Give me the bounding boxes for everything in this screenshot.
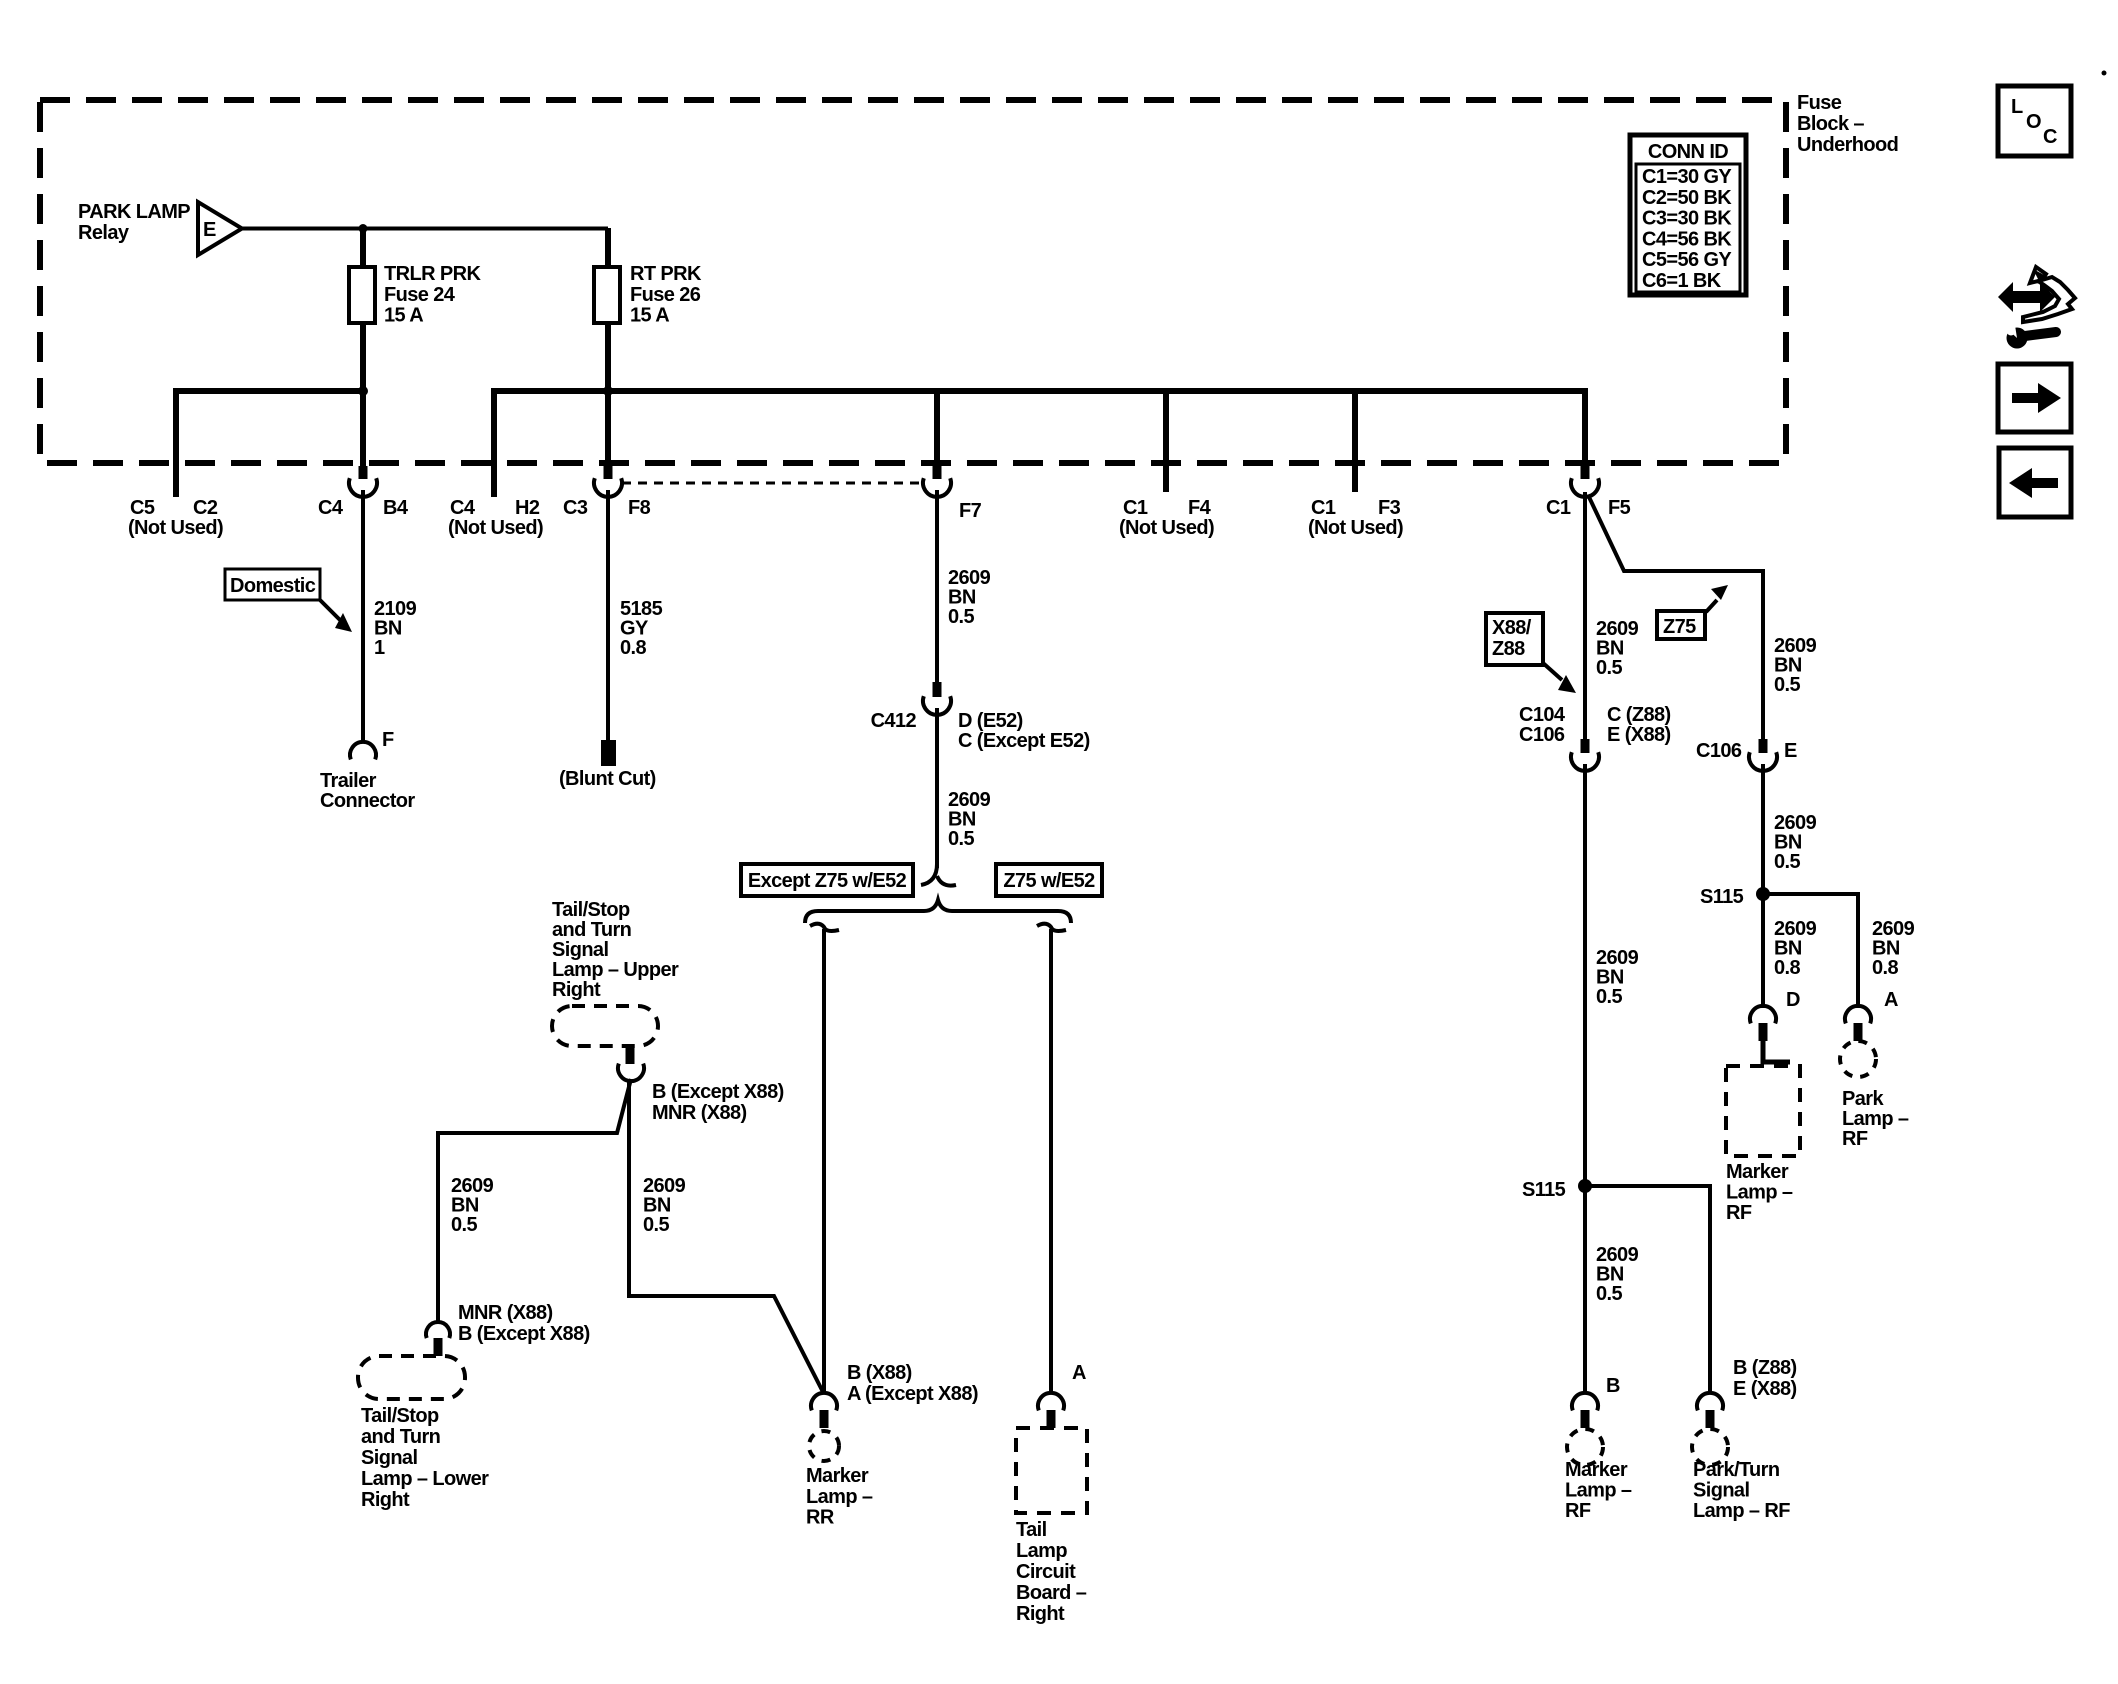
svg-text:C3=30 BK: C3=30 BK (1642, 208, 1732, 230)
svg-text:C412: C412 (871, 710, 917, 732)
svg-text:0.8: 0.8 (1872, 957, 1898, 979)
svg-text:Underhood: Underhood (1797, 134, 1898, 156)
splice S115 dot 2 (1578, 1179, 1592, 1193)
svg-text:0.5: 0.5 (948, 828, 974, 850)
connector C412 (933, 682, 942, 697)
dashed link F8 to F7 (622, 482, 923, 485)
connector park/turn RF (1697, 1393, 1723, 1410)
svg-text:and Turn: and Turn (552, 919, 631, 941)
arrow outline icon (2023, 267, 2075, 322)
svg-text:Signal: Signal (1693, 1480, 1749, 1502)
next arrow icon (1998, 364, 2071, 432)
svg-text:C: C (2043, 126, 2057, 148)
svg-text:L: L (2011, 96, 2023, 118)
park lamp RF bulb (1840, 1041, 1876, 1077)
svg-text:Except Z75 w/E52: Except Z75 w/E52 (748, 870, 907, 892)
connector B marker RF (1572, 1393, 1598, 1410)
svg-text:Lamp: Lamp (1016, 1540, 1067, 1562)
svg-text:1: 1 (374, 637, 385, 659)
connector marker RR (811, 1393, 837, 1410)
connector D (1750, 1006, 1776, 1023)
wire 2609 below C104 (1583, 764, 1587, 1186)
svg-text:C5: C5 (130, 497, 155, 519)
svg-text:X88/: X88/ (1492, 617, 1532, 639)
wire upper lamp to marker RR (629, 1079, 824, 1394)
wire RT fuse top (605, 228, 611, 267)
option box Except Z75 w/E52 (741, 864, 913, 896)
svg-text:0.5: 0.5 (1774, 674, 1800, 696)
CONN ID table (1630, 135, 1746, 295)
svg-text:(Not Used): (Not Used) (1308, 517, 1403, 539)
svg-text:0.5: 0.5 (1596, 986, 1622, 1008)
wire to MNR lower lamp (438, 1079, 631, 1322)
wire S115-2 to marker RF (1583, 1186, 1587, 1394)
wire TRLR fuse bottom (360, 323, 366, 466)
svg-text:Domestic: Domestic (230, 575, 316, 597)
domestic arrow (320, 600, 342, 622)
svg-text:PARK LAMP: PARK LAMP (78, 201, 190, 223)
wire hook right (1037, 924, 1066, 931)
svg-text:(Not Used): (Not Used) (448, 517, 543, 539)
wire hook left (810, 924, 839, 931)
fuse 26 RT PRK (594, 267, 620, 323)
svg-text:E (X88): E (X88) (1733, 1378, 1797, 1400)
wire S115 to D (1761, 894, 1765, 1008)
svg-text:0.8: 0.8 (1774, 957, 1800, 979)
svg-text:C106: C106 (1696, 740, 1742, 762)
back arrow icon (1999, 448, 2071, 517)
artifact dot (2102, 71, 2107, 76)
wire TRLR fuse top (360, 228, 366, 267)
wire 2609 BN below C412 (935, 708, 939, 868)
stub C1 F3 (1352, 391, 1358, 492)
svg-text:S115: S115 (1700, 886, 1744, 908)
left bus wire (176, 391, 363, 497)
svg-text:0.5: 0.5 (948, 606, 974, 628)
svg-text:S115: S115 (1522, 1179, 1566, 1201)
svg-text:Marker: Marker (1726, 1161, 1789, 1183)
svg-text:RT PRK: RT PRK (630, 263, 702, 285)
junction dot left bus (358, 386, 368, 396)
wire S115-2 to park/turn (1585, 1186, 1710, 1394)
svg-text:Tail/Stop: Tail/Stop (361, 1405, 439, 1427)
connector MNR (426, 1322, 450, 1338)
svg-text:Park: Park (1842, 1088, 1884, 1110)
svg-text:F3: F3 (1378, 497, 1401, 519)
svg-text:Z75 w/E52: Z75 w/E52 (1003, 870, 1095, 892)
svg-text:Lamp –: Lamp – (1565, 1480, 1632, 1502)
wire S115 to A (1763, 894, 1858, 1008)
svg-text:C2=50 BK: C2=50 BK (1642, 187, 1732, 209)
svg-text:C1: C1 (1311, 497, 1336, 519)
tail lamp circuit board box (1016, 1428, 1087, 1513)
svg-text:F8: F8 (628, 497, 651, 519)
svg-text:C4: C4 (318, 497, 344, 519)
Z75 arrow (1706, 600, 1717, 612)
svg-text:B4: B4 (383, 497, 409, 519)
svg-text:Circuit: Circuit (1016, 1561, 1076, 1583)
svg-text:Right: Right (361, 1489, 410, 1511)
Z75 callout box (1657, 611, 1705, 639)
marker lamp RF box (1726, 1066, 1800, 1156)
connector C106 E (1761, 682, 1765, 740)
connector A board (1038, 1393, 1064, 1410)
svg-text:C5=56 GY: C5=56 GY (1642, 249, 1732, 271)
svg-text:Signal: Signal (361, 1447, 417, 1469)
svg-text:RR: RR (806, 1507, 835, 1529)
relay E triangle (198, 202, 242, 255)
svg-text:Lamp –: Lamp – (806, 1486, 873, 1508)
svg-text:Block –: Block – (1797, 113, 1864, 135)
svg-text:C3: C3 (563, 497, 588, 519)
svg-text:RF: RF (1842, 1128, 1868, 1150)
svg-text:Lamp –: Lamp – (1842, 1108, 1909, 1130)
svg-text:Signal: Signal (552, 939, 608, 961)
fuse block - underhood dashed border (40, 100, 1786, 463)
svg-text:(Not Used): (Not Used) (128, 517, 223, 539)
svg-text:C6=1 BK: C6=1 BK (1642, 270, 1722, 292)
junction dot relay/TRLR (359, 224, 368, 233)
svg-text:Right: Right (1016, 1603, 1065, 1625)
svg-text:C106: C106 (1519, 724, 1565, 746)
wire D to marker box (1763, 1041, 1790, 1062)
svg-text:E (X88): E (X88) (1607, 724, 1671, 746)
marker lamp RF bulb 2 (1567, 1429, 1603, 1465)
svg-text:C1: C1 (1123, 497, 1148, 519)
svg-text:D (E52): D (E52) (958, 710, 1023, 732)
wire end hook above brace (921, 864, 937, 885)
double arrow icon (1998, 282, 2055, 312)
svg-text:Relay: Relay (78, 222, 130, 244)
svg-text:Tail: Tail (1016, 1519, 1047, 1541)
svg-text:B (Except X88): B (Except X88) (458, 1323, 590, 1345)
svg-text:Trailer: Trailer (320, 770, 377, 792)
svg-text:C104: C104 (1519, 704, 1566, 726)
svg-text:and Turn: and Turn (361, 1426, 440, 1448)
svg-text:15 A: 15 A (384, 305, 423, 327)
brace (805, 900, 1071, 923)
svg-text:F5: F5 (1608, 497, 1631, 519)
svg-text:Board –: Board – (1016, 1582, 1087, 1604)
wire brace right vertical (1049, 929, 1053, 1394)
wire brace left vertical (822, 929, 826, 1394)
svg-text:(Blunt Cut): (Blunt Cut) (559, 768, 656, 790)
connector B4 (359, 466, 368, 479)
connector F5 (1581, 466, 1590, 479)
svg-text:O: O (2026, 111, 2041, 133)
fuse 24 TRLR PRK (349, 267, 375, 323)
svg-text:B (X88): B (X88) (847, 1362, 912, 1384)
svg-text:CONN ID: CONN ID (1648, 141, 1728, 163)
svg-text:0.5: 0.5 (643, 1214, 669, 1236)
svg-text:Fuse 24: Fuse 24 (384, 284, 456, 306)
svg-text:Connector: Connector (320, 790, 415, 812)
svg-text:MNR (X88): MNR (X88) (652, 1102, 747, 1124)
svg-text:Lamp – Upper: Lamp – Upper (552, 959, 679, 981)
svg-text:Tail/Stop: Tail/Stop (552, 899, 630, 921)
connector F7 (933, 466, 942, 479)
svg-text:A (Except X88): A (Except X88) (847, 1383, 978, 1405)
svg-text:Lamp – RF: Lamp – RF (1693, 1500, 1790, 1522)
wire 2109 BN to trailer (361, 490, 365, 742)
park/turn lamp RF bulb (1692, 1429, 1728, 1465)
X88/Z88 callout box (1486, 613, 1543, 665)
stub C1 F4 (1163, 391, 1169, 492)
svg-text:0.8: 0.8 (620, 637, 646, 659)
svg-text:Fuse: Fuse (1797, 92, 1842, 114)
svg-text:F7: F7 (959, 500, 982, 522)
domestic callout box (225, 569, 320, 600)
wire RT fuse bottom (605, 323, 611, 466)
svg-text:0.5: 0.5 (1596, 1283, 1622, 1305)
svg-text:(Not Used): (Not Used) (1119, 517, 1214, 539)
wire 2609 below C106 (1761, 764, 1765, 894)
svg-text:C1: C1 (1546, 497, 1571, 519)
svg-text:C1=30 GY: C1=30 GY (1642, 166, 1732, 188)
splice S115 dot (1756, 887, 1770, 901)
tail/stop upper right lamp (552, 1006, 658, 1046)
svg-text:C (Z88): C (Z88) (1607, 704, 1671, 726)
svg-text:Right: Right (552, 979, 601, 1001)
svg-text:RF: RF (1565, 1500, 1591, 1522)
svg-text:0.5: 0.5 (451, 1214, 477, 1236)
right bus wire (494, 391, 1585, 497)
svg-text:Marker: Marker (1565, 1459, 1628, 1481)
svg-text:0.5: 0.5 (1596, 657, 1622, 679)
wire C1 main drop (1583, 492, 1587, 682)
svg-text:C4=56 BK: C4=56 BK (1642, 228, 1732, 250)
marker lamp RR bulb (809, 1431, 839, 1461)
svg-text:Park/Turn: Park/Turn (1693, 1459, 1779, 1481)
svg-text:Lamp – Lower: Lamp – Lower (361, 1468, 489, 1490)
svg-text:E: E (1784, 740, 1797, 762)
svg-text:MNR (X88): MNR (X88) (458, 1302, 553, 1324)
wrench icon (2007, 328, 2028, 349)
svg-text:0.5: 0.5 (1774, 851, 1800, 873)
svg-text:C (Except E52): C (Except E52) (958, 730, 1090, 752)
wire relay output (242, 227, 608, 231)
svg-text:RF: RF (1726, 1202, 1752, 1224)
wire 2609 BN F7 to C412 (935, 490, 939, 682)
LOC icon (1998, 86, 2071, 156)
wire 5185 GY (606, 490, 610, 741)
svg-text:C2: C2 (193, 497, 218, 519)
svg-text:15 A: 15 A (630, 305, 669, 327)
wire F7 drop (934, 391, 940, 466)
connector C104/C106 (1583, 682, 1587, 740)
connector F8 (604, 466, 613, 479)
svg-text:B (Z88): B (Z88) (1733, 1357, 1797, 1379)
svg-text:F4: F4 (1188, 497, 1212, 519)
junction dot right bus (603, 386, 613, 396)
svg-text:C4: C4 (450, 497, 476, 519)
svg-text:E: E (203, 219, 216, 241)
svg-text:Lamp –: Lamp – (1726, 1182, 1793, 1204)
svg-text:B: B (1606, 1375, 1620, 1397)
svg-text:B (Except X88): B (Except X88) (652, 1081, 784, 1103)
connector B upper lamp (626, 1046, 635, 1064)
svg-text:Fuse 26: Fuse 26 (630, 284, 701, 306)
connector A park (1845, 1006, 1871, 1023)
svg-text:TRLR PRK: TRLR PRK (384, 263, 481, 285)
svg-text:A: A (1884, 989, 1898, 1011)
svg-text:Z88: Z88 (1492, 638, 1525, 660)
svg-text:Marker: Marker (806, 1465, 869, 1487)
svg-text:A: A (1072, 1362, 1086, 1384)
wire F5 branch diagonal (1589, 497, 1763, 682)
svg-text:Z75: Z75 (1663, 616, 1696, 638)
svg-text:D: D (1786, 989, 1800, 1011)
svg-text:F: F (382, 729, 394, 751)
blunt cut terminal (601, 740, 616, 766)
X88/Z88 arrow (1543, 663, 1562, 680)
connector F trailer (350, 742, 376, 759)
svg-text:H2: H2 (515, 497, 540, 519)
option box Z75 w/E52 (996, 864, 1102, 896)
tail/stop lower right lamp (358, 1356, 465, 1399)
